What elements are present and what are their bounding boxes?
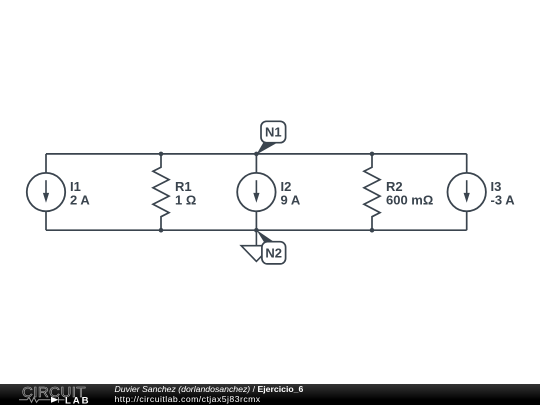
svg-text:600 mΩ: 600 mΩ — [386, 192, 433, 207]
svg-text:N1: N1 — [265, 125, 282, 140]
label I3 -3 A — [491, 179, 516, 208]
wire right vertical (I3 bottom lead) — [466, 211, 468, 230]
label I1 2 A — [70, 179, 90, 208]
svg-text:2 A: 2 A — [70, 192, 90, 207]
node N1 — [254, 152, 259, 157]
label R1 1 ohm — [175, 179, 196, 208]
svg-text:9 A: 9 A — [281, 192, 301, 207]
current source I2 — [237, 173, 275, 211]
resistor R2 — [364, 154, 380, 230]
label R2 600 mohm — [386, 179, 433, 208]
node R1 top — [159, 152, 164, 157]
node R2 top — [370, 152, 375, 157]
svg-text:1 Ω: 1 Ω — [175, 192, 196, 207]
junction dots — [159, 152, 375, 233]
node R2 bottom — [370, 228, 375, 233]
label I2 9 A — [281, 179, 301, 208]
svg-text:-3 A: -3 A — [491, 192, 516, 207]
svg-text:LAB: LAB — [65, 396, 90, 405]
current source I1 — [27, 173, 65, 211]
node N1 flag — [256, 121, 285, 154]
footer bar — [0, 384, 540, 405]
wire bottom rail — [46, 229, 467, 231]
wire top rail — [46, 153, 467, 155]
wire I2 top lead — [255, 154, 257, 174]
node R1 bottom — [159, 228, 164, 233]
wire I2 bottom lead — [255, 211, 257, 230]
svg-text:N2: N2 — [265, 245, 282, 260]
wire left vertical (I1 bottom lead) — [45, 211, 47, 230]
CircuitLab logo — [0, 384, 110, 405]
node N2 flag — [256, 230, 285, 264]
wire left vertical (I1 top lead) — [45, 154, 47, 174]
ground (at node N2) — [241, 230, 271, 261]
wire right vertical (I3 top lead) — [466, 154, 468, 174]
credit text — [115, 385, 304, 404]
resistor R1 — [153, 154, 169, 230]
node N2 — [254, 228, 259, 233]
current source I3 — [448, 173, 486, 211]
